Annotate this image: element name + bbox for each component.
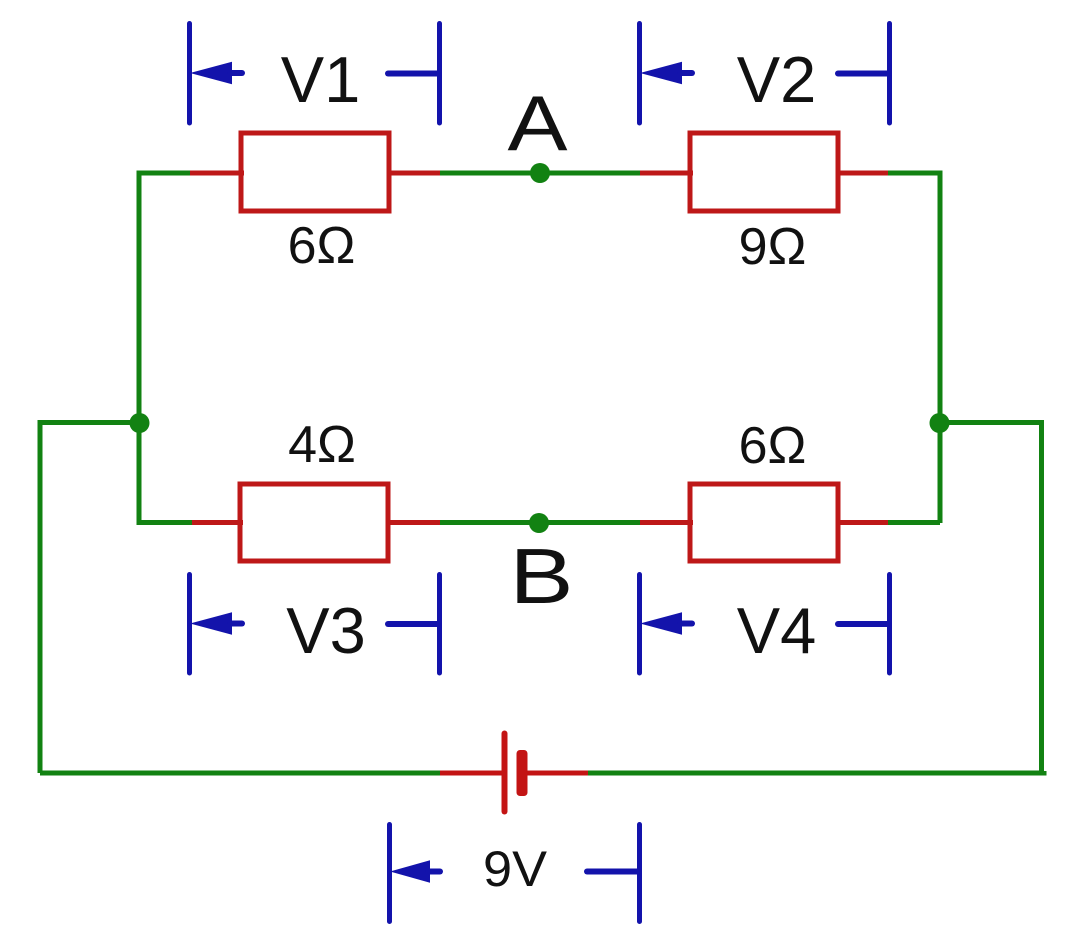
svg-text:6Ω: 6Ω [739,417,807,475]
source marker 9V right bar [637,825,642,922]
wire right junction to outer right rail [938,423,1042,774]
wire node B segment (green between R3 and R4) [440,520,640,525]
wire lower branch left corner [139,421,192,523]
voltmeter V3 arrow head [190,612,232,635]
voltmeter V4 arrow head [640,612,682,635]
battery lead left (red) [440,771,502,776]
wire node A segment (green between R1 and R2) [440,171,640,176]
battery short plate [517,750,528,796]
source marker 9V left bar [387,825,392,922]
svg-text:9Ω: 9Ω [739,218,807,276]
voltmeter V3 right bar [437,575,442,674]
battery lead right (red) [527,771,588,776]
resistor R1 lead right (red) [387,171,440,176]
voltmeter V1 arrow head [190,62,232,85]
svg-text:V4: V4 [737,594,817,667]
wire top-right horizontal + right inner vertical [888,173,940,523]
voltmeter V2 right bar [887,24,892,124]
voltmeter V3 arrow stub [230,621,242,627]
resistor R4 lead right (red) [836,520,888,525]
resistor R4 lead left (red) [640,520,693,525]
voltmeter V3 right stub [388,621,438,627]
voltmeter V2 left bar [637,24,642,124]
voltmeter V2 right stub [838,71,888,77]
resistor R4 body (6 ohm bottom-right) [690,484,838,561]
svg-text:9V: 9V [483,841,548,897]
source marker 9V right stub [587,869,638,875]
svg-text:A: A [508,79,568,167]
voltmeter V4 right bar [887,575,892,674]
resistor R3 body (4 ohm bottom-left) [240,484,388,561]
wire left junction to outer left rail [40,423,141,774]
resistor R1 lead left (red) [190,171,244,176]
source marker 9V arrow stub [428,869,440,875]
voltmeter V4 right stub [838,621,888,627]
node B junction dot [529,513,549,533]
right rail junction dot [930,413,950,433]
wire bottom rail left green [40,771,440,776]
voltmeter V1 arrow stub [230,70,242,76]
battery long plate [502,734,508,812]
source marker 9V arrow head [390,860,430,882]
resistor R3 lead left (red) [192,520,243,525]
wire bottom rail right green [588,771,1044,773]
resistor R1 body (6 ohm top-left) [241,133,389,211]
node A junction dot [530,163,550,183]
svg-text:6Ω: 6Ω [288,217,356,275]
resistor R2 lead right (red) [836,171,888,176]
voltmeter V1 left bar [187,24,192,124]
wire lower branch right green [888,520,940,525]
svg-text:V2: V2 [737,43,817,116]
svg-text:V3: V3 [286,594,366,667]
resistor R2 body (9 ohm top-right) [690,133,838,211]
voltmeter V1 right stub [388,71,438,77]
svg-text:4Ω: 4Ω [288,416,356,474]
voltmeter V4 arrow stub [680,621,692,627]
resistor R3 lead right (red) [386,520,440,525]
svg-text:V1: V1 [281,43,361,116]
wire top-left horizontal + left inner vertical [139,173,190,423]
voltmeter V1 right bar [437,24,442,124]
voltmeter V2 arrow head [640,62,682,85]
voltmeter V3 left bar [187,575,192,674]
resistor R2 lead left (red) [640,171,693,176]
voltmeter V4 left bar [637,575,642,674]
voltmeter V2 arrow stub [680,70,692,76]
left rail junction dot [130,413,150,433]
svg-text:B: B [510,532,574,620]
